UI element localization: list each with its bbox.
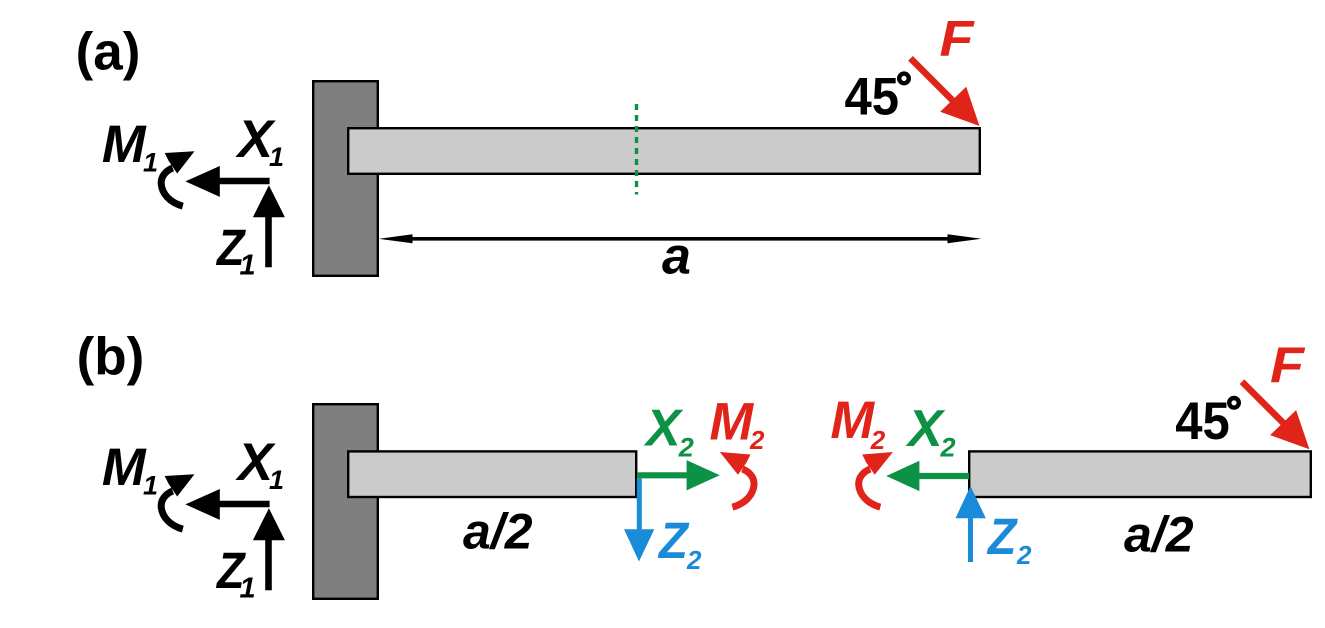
svg-text:Z: Z xyxy=(986,508,1018,565)
svg-text:a/2: a/2 xyxy=(1124,507,1194,563)
wall support (fixed end, part b) xyxy=(313,404,378,599)
force F arrow (part a) xyxy=(911,58,980,126)
svg-text:45: 45 xyxy=(1175,392,1230,451)
force F arrow (part b) xyxy=(1242,382,1309,450)
internal force Z2 arrow left cut (blue, pointing down) xyxy=(624,478,654,561)
svg-text:2: 2 xyxy=(1016,540,1032,570)
svg-text:2: 2 xyxy=(678,433,694,463)
svg-text:F: F xyxy=(1270,337,1306,393)
svg-text:2: 2 xyxy=(870,425,886,455)
reaction X1 arrow (part a) xyxy=(185,166,269,197)
svg-text:2: 2 xyxy=(686,545,702,575)
beam left half (part b) xyxy=(348,451,636,497)
svg-text:1: 1 xyxy=(240,573,256,605)
internal force X2 arrow left cut (green, pointing right) xyxy=(637,460,720,490)
internal force X2 arrow right cut (green, pointing left) xyxy=(886,461,969,491)
reaction Z1 arrow (part b) xyxy=(253,508,285,590)
beam part a xyxy=(348,128,980,174)
internal force Z2 arrow right cut (blue, pointing up) xyxy=(956,486,986,562)
wall support A (fixed end, part a) xyxy=(313,81,378,276)
svg-text:(a): (a) xyxy=(76,23,141,82)
svg-text:M: M xyxy=(830,391,875,450)
svg-text:M: M xyxy=(102,438,147,497)
svg-text:45: 45 xyxy=(845,68,900,127)
svg-text:F: F xyxy=(940,11,976,67)
svg-text:2: 2 xyxy=(749,425,765,455)
beam right half (part b) xyxy=(969,451,1311,497)
svg-text:Z: Z xyxy=(657,512,690,569)
svg-text:a: a xyxy=(662,228,691,286)
reaction X1 arrow (part b) xyxy=(185,489,269,520)
dimension line a xyxy=(379,234,982,243)
svg-text:1: 1 xyxy=(269,465,284,495)
svg-text:(b): (b) xyxy=(77,328,145,387)
internal moment M2 curved arrow left cut (red, ccw) xyxy=(720,452,754,507)
moment M1 curved arrow (part a) xyxy=(161,151,194,206)
svg-text:1: 1 xyxy=(240,250,256,282)
reaction Z1 arrow (part a) xyxy=(253,185,285,267)
svg-text:M: M xyxy=(709,392,754,451)
svg-text:1: 1 xyxy=(269,142,284,172)
svg-text:a/2: a/2 xyxy=(463,504,533,560)
internal moment M2 curved arrow right cut (red, cw) xyxy=(859,452,893,507)
svg-text:2: 2 xyxy=(940,433,956,463)
svg-text:1: 1 xyxy=(143,148,158,178)
cut plane dashed line (green) xyxy=(635,104,638,195)
svg-text:1: 1 xyxy=(143,471,158,501)
svg-text:M: M xyxy=(102,115,147,174)
moment M1 curved arrow (part b) xyxy=(161,474,194,529)
